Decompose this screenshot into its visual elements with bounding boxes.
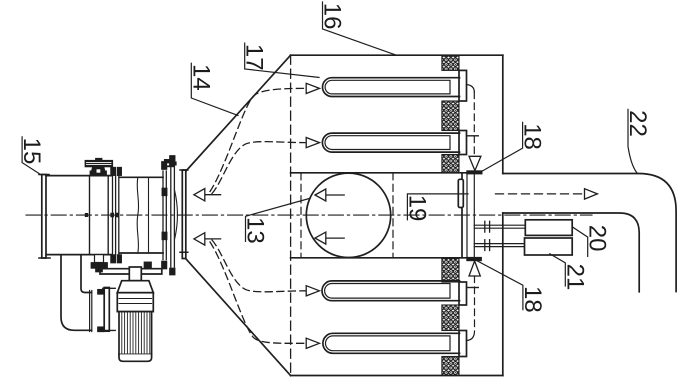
combustion box bottom wall bbox=[291, 257, 467, 259]
svg-text:17: 17 bbox=[241, 44, 268, 71]
svg-text:13: 13 bbox=[242, 217, 269, 244]
label 22 bbox=[624, 109, 651, 173]
svg-text:18: 18 bbox=[519, 123, 546, 150]
cone 14 bottom wall bbox=[186, 259, 291, 376]
swirl disc 13 bbox=[306, 173, 390, 257]
outlet flow dashed arrow bbox=[496, 189, 598, 199]
flue manifold upper hidden duct bbox=[473, 92, 475, 156]
burner mid flange pair bbox=[85, 167, 122, 263]
burner collar ring bbox=[90, 176, 109, 255]
refractory wall hatch block C bbox=[442, 155, 459, 173]
flow curve to tube 4 bbox=[210, 242, 305, 343]
outlet duct 22 inner wall bbox=[503, 213, 639, 292]
combustion box top wall bbox=[291, 172, 467, 174]
flue manifold duct between valves bbox=[467, 174, 474, 258]
burner 15 housing shell bbox=[46, 176, 163, 255]
burner pilot fitting bbox=[164, 159, 176, 166]
svg-text:16: 16 bbox=[319, 3, 346, 30]
U-tube 17 no.3 bbox=[322, 281, 460, 301]
burner drain fitting bbox=[91, 255, 108, 272]
tube4 outlet elbow bbox=[467, 331, 475, 341]
tube1 outlet elbow bbox=[467, 85, 475, 93]
label 16 bbox=[319, 2, 396, 55]
U-tube 17 no.1 bbox=[322, 78, 459, 97]
refractory wall hatch block F bbox=[442, 357, 459, 376]
label 20 bbox=[572, 225, 611, 257]
refractory wall hatch block D bbox=[442, 259, 459, 283]
svg-text:14: 14 bbox=[187, 64, 214, 91]
refractory wall hatch block E bbox=[442, 305, 459, 331]
flow arrow into tube 2 bbox=[306, 138, 319, 148]
damper valve 18 top bbox=[467, 156, 482, 174]
tube sheet tab 3 bbox=[459, 282, 467, 305]
control box 21 bbox=[525, 238, 573, 255]
svg-text:18: 18 bbox=[519, 286, 546, 313]
burner 15 left end plate bbox=[39, 175, 50, 259]
label 14 bbox=[187, 63, 238, 115]
svg-text:21: 21 bbox=[561, 264, 588, 291]
U-tube 17 no.4 bbox=[323, 333, 460, 353]
cone 14 top wall bbox=[186, 55, 291, 171]
label 21 bbox=[550, 254, 589, 291]
flow arrow into tube 3 bbox=[306, 286, 319, 296]
label 17 bbox=[241, 43, 319, 77]
flow curve to tube 2 bbox=[212, 142, 305, 194]
burner shell break line bbox=[137, 177, 139, 253]
blower elbow duct bbox=[61, 255, 92, 331]
combustion box hidden wall right bbox=[392, 173, 394, 258]
combustion box right wall bbox=[461, 173, 463, 258]
flue manifold lower hidden duct bbox=[474, 276, 476, 331]
swirl arrow upper in disc bbox=[315, 189, 344, 201]
burner mount end plate bbox=[180, 170, 188, 259]
burner gas pipe lower to box 21 bbox=[474, 240, 525, 251]
label 13 bbox=[242, 198, 311, 243]
tube3 outlet branch bbox=[468, 287, 479, 289]
burner gas pipe upper to box 20 bbox=[474, 221, 525, 232]
centerline bbox=[26, 214, 592, 216]
motor mount bracket bbox=[100, 262, 162, 274]
blower inlet plate bbox=[98, 288, 116, 332]
combustion box hidden wall left bbox=[300, 173, 302, 258]
flow arrow into tube 4 bbox=[306, 338, 319, 348]
svg-text:20: 20 bbox=[584, 225, 611, 252]
label 18 bottom bbox=[477, 261, 546, 313]
flow curve to tube 1 bbox=[210, 88, 305, 191]
fan motor bbox=[117, 267, 153, 361]
control box 20 bbox=[525, 220, 572, 236]
tube2 outlet branch bbox=[467, 135, 479, 137]
recirculation arrow lower at burner bbox=[194, 233, 221, 245]
outlet duct 22 outer wall bbox=[503, 174, 676, 292]
burner inner tube line bbox=[148, 177, 150, 253]
tube sheet tab 4 bbox=[459, 331, 467, 357]
tube sheet tab 1 bbox=[459, 70, 467, 101]
flow arrow into tube 1 bbox=[306, 83, 319, 93]
U-tube 17 no.2 bbox=[322, 133, 459, 152]
sight glass 19 bbox=[458, 179, 463, 207]
label 19 bbox=[403, 194, 468, 222]
chamber 16 outer shell bbox=[291, 55, 503, 375]
burner right flange cluster bbox=[162, 156, 178, 276]
label 18 top bbox=[482, 122, 546, 171]
label 15 bbox=[18, 137, 45, 176]
tube sheet tab 2 bbox=[459, 131, 467, 155]
damper valve 18 bottom bbox=[467, 257, 482, 276]
swirl arrow lower in disc bbox=[315, 232, 344, 244]
svg-text:22: 22 bbox=[624, 110, 651, 137]
refractory wall hatch block A bbox=[442, 56, 459, 71]
flow curve to tube 3 bbox=[212, 240, 305, 292]
svg-text:15: 15 bbox=[18, 138, 45, 165]
burner feed handwheel valve bbox=[85, 158, 113, 174]
refractory wall hatch block B bbox=[442, 101, 459, 131]
svg-text:19: 19 bbox=[403, 195, 430, 222]
recirculation arrow upper at burner bbox=[194, 189, 221, 201]
